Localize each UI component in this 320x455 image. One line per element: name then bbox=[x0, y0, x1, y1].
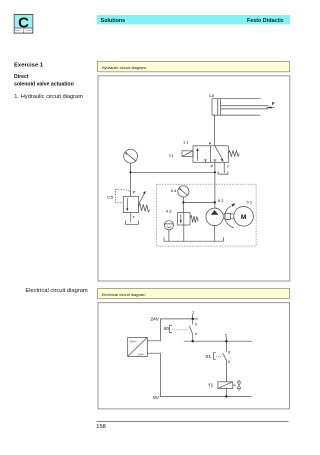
svg-text:S1: S1 bbox=[206, 354, 212, 359]
svg-text:3: 3 bbox=[228, 349, 230, 354]
svg-text:Solutions: Solutions bbox=[101, 18, 126, 24]
svg-text:0.2: 0.2 bbox=[218, 198, 224, 203]
svg-text:24V=: 24V= bbox=[138, 352, 145, 356]
svg-text:0V: 0V bbox=[153, 395, 160, 401]
svg-text:P: P bbox=[211, 164, 214, 169]
svg-text:2: 2 bbox=[225, 332, 227, 337]
svg-text:Y1: Y1 bbox=[208, 383, 214, 388]
svg-text:24V: 24V bbox=[150, 316, 159, 322]
svg-text:0.5: 0.5 bbox=[107, 194, 113, 199]
svg-text:M: M bbox=[241, 214, 246, 221]
svg-text:Y1: Y1 bbox=[169, 153, 175, 158]
svg-text:1.1: 1.1 bbox=[183, 139, 189, 144]
svg-text:F: F bbox=[272, 101, 275, 106]
svg-text:3: 3 bbox=[195, 321, 197, 326]
svg-text:0.1: 0.1 bbox=[247, 199, 253, 204]
svg-text:Electrical circuit diagram: Electrical circuit diagram bbox=[25, 288, 88, 294]
svg-text:solenoid valve actuation: solenoid valve actuation bbox=[14, 81, 74, 87]
svg-text:Electrical circuit diagram: Electrical circuit diagram bbox=[102, 292, 146, 297]
svg-text:P: P bbox=[133, 190, 136, 195]
svg-text:1: 1 bbox=[192, 310, 194, 315]
svg-text:230V~: 230V~ bbox=[129, 340, 137, 344]
svg-text:0.3: 0.3 bbox=[166, 208, 172, 213]
svg-text:S0: S0 bbox=[164, 326, 170, 331]
svg-text:158: 158 bbox=[96, 424, 106, 430]
svg-text:0.4: 0.4 bbox=[171, 188, 177, 193]
svg-text:A: A bbox=[209, 141, 212, 146]
svg-text:Hydraulic circuit diagram: Hydraulic circuit diagram bbox=[102, 65, 147, 70]
svg-text:Direct: Direct bbox=[14, 74, 29, 80]
svg-text:Festo Didactic: Festo Didactic bbox=[247, 18, 284, 24]
svg-text:Hydraulic circuit diagram: Hydraulic circuit diagram bbox=[21, 94, 84, 100]
svg-text:Exercise 1: Exercise 1 bbox=[14, 62, 44, 68]
svg-text:1.0: 1.0 bbox=[209, 93, 215, 98]
svg-text:1.: 1. bbox=[14, 94, 19, 100]
